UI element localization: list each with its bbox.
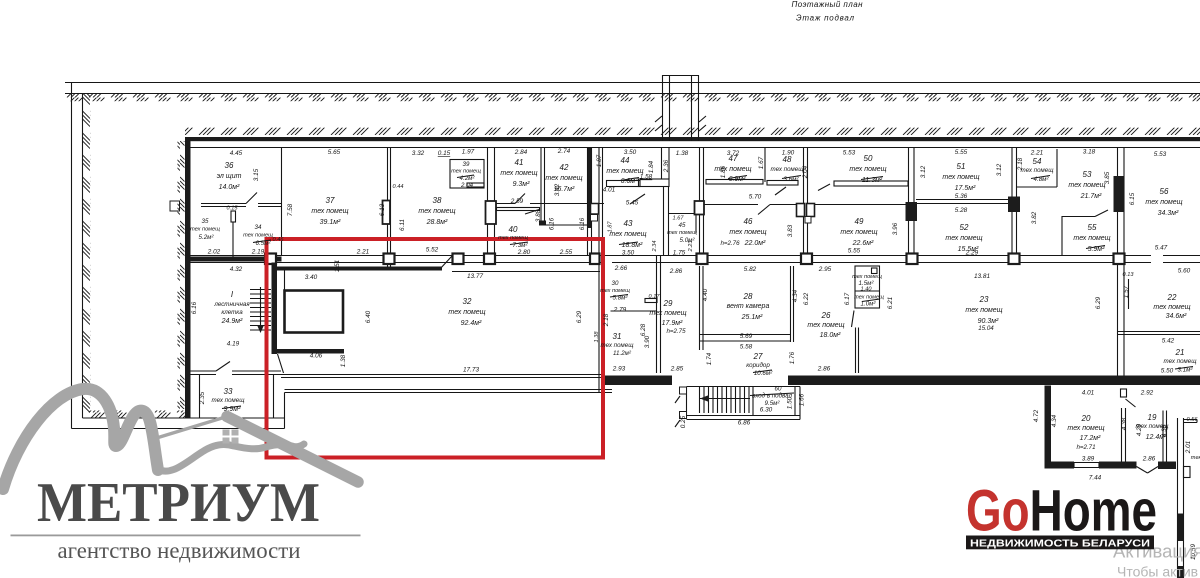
svg-text:0.25: 0.25	[680, 415, 687, 428]
svg-text:тех помещ: тех помещ	[451, 169, 481, 175]
svg-text:7.58: 7.58	[287, 203, 294, 216]
svg-text:h=2.76: h=2.76	[720, 240, 740, 247]
svg-text:6.15: 6.15	[1129, 192, 1136, 205]
svg-text:34.6м²: 34.6м²	[1166, 313, 1187, 320]
svg-text:54: 54	[1033, 157, 1042, 166]
svg-text:14.0м²: 14.0м²	[219, 184, 240, 191]
svg-text:h=2.75: h=2.75	[666, 328, 686, 335]
svg-text:21: 21	[1175, 348, 1185, 357]
svg-text:34: 34	[255, 224, 262, 231]
svg-text:0.15: 0.15	[227, 206, 239, 212]
svg-text:2.55: 2.55	[559, 249, 573, 256]
svg-text:тех помещ: тех помещ	[311, 208, 348, 215]
svg-text:1.74: 1.74	[706, 352, 713, 365]
svg-text:вент камера: вент камера	[727, 303, 770, 310]
svg-text:3.90: 3.90	[644, 335, 651, 348]
svg-text:18.0м²: 18.0м²	[820, 332, 841, 339]
svg-text:4.01: 4.01	[1082, 390, 1095, 397]
svg-text:42: 42	[560, 163, 569, 172]
svg-text:2.02: 2.02	[207, 249, 221, 256]
svg-text:6.30: 6.30	[760, 407, 773, 414]
svg-text:5.60: 5.60	[1178, 268, 1191, 275]
svg-text:49: 49	[855, 217, 864, 226]
svg-text:19: 19	[1148, 413, 1157, 422]
svg-text:3.82: 3.82	[1031, 211, 1038, 224]
svg-text:2.36: 2.36	[663, 159, 670, 173]
svg-text:21.7м²: 21.7м²	[1080, 193, 1102, 200]
svg-text:0.17: 0.17	[649, 294, 661, 300]
svg-text:17.5м²: 17.5м²	[955, 185, 976, 192]
svg-text:тех помещ: тех помещ	[1164, 358, 1198, 365]
svg-text:2.93: 2.93	[612, 366, 626, 373]
svg-text:26: 26	[821, 311, 831, 320]
svg-text:1.67: 1.67	[758, 156, 765, 169]
svg-text:1.66: 1.66	[799, 393, 806, 406]
svg-text:5.50: 5.50	[1161, 368, 1174, 375]
svg-text:агентство недвижимости: агентство недвижимости	[58, 538, 301, 563]
svg-text:1.38: 1.38	[340, 354, 347, 367]
svg-text:6.29: 6.29	[1095, 296, 1102, 309]
svg-text:МЕТРИУМ: МЕТРИУМ	[37, 472, 320, 534]
svg-text:тех помещ: тех помещ	[601, 342, 635, 349]
svg-text:11.2м²: 11.2м²	[613, 350, 632, 357]
svg-text:тех помещ: тех помещ	[190, 227, 220, 233]
svg-text:4.01: 4.01	[603, 187, 616, 194]
svg-text:28: 28	[743, 292, 753, 301]
svg-text:1.40: 1.40	[861, 287, 873, 293]
svg-text:тех помещ: тех помещ	[649, 310, 686, 317]
svg-text:тех помещ: тех помещ	[498, 235, 528, 241]
svg-text:h=2.71: h=2.71	[1076, 444, 1095, 451]
svg-text:1.58: 1.58	[640, 174, 653, 181]
svg-text:тех помещ: тех помещ	[1073, 235, 1110, 242]
svg-text:6.16: 6.16	[579, 217, 586, 230]
svg-text:5.53: 5.53	[843, 150, 856, 157]
svg-text:2.29: 2.29	[965, 250, 979, 257]
svg-text:Этаж подвал: Этаж подвал	[796, 14, 854, 23]
svg-text:тех помещ: тех помещ	[606, 168, 643, 175]
svg-text:5.28: 5.28	[955, 207, 968, 214]
svg-text:тех помещ: тех помещ	[243, 233, 273, 239]
svg-text:53: 53	[1083, 170, 1092, 179]
svg-text:3.89: 3.89	[1082, 456, 1095, 463]
svg-text:40: 40	[509, 225, 518, 234]
svg-text:37: 37	[326, 196, 335, 205]
svg-text:тех помещ: тех помещ	[600, 288, 630, 294]
svg-text:45: 45	[679, 222, 686, 229]
svg-text:5.58: 5.58	[740, 344, 753, 351]
svg-text:0.15: 0.15	[438, 150, 451, 157]
svg-text:тех помещ: тех помещ	[667, 230, 697, 236]
svg-text:3.12: 3.12	[920, 165, 927, 178]
svg-text:6.28: 6.28	[640, 323, 647, 336]
svg-text:27: 27	[753, 352, 763, 361]
svg-text:лестничная: лестничная	[213, 301, 250, 308]
svg-text:0.44: 0.44	[393, 184, 404, 190]
svg-text:22.0м²: 22.0м²	[744, 240, 766, 247]
svg-text:тех помещ: тех помещ	[448, 309, 485, 316]
svg-text:6.86: 6.86	[738, 420, 751, 427]
svg-text:клетка: клетка	[221, 309, 243, 316]
svg-text:4.19: 4.19	[227, 341, 240, 348]
svg-text:23: 23	[979, 295, 989, 304]
svg-text:0.13: 0.13	[1123, 272, 1135, 278]
svg-text:5.47: 5.47	[1155, 245, 1168, 252]
svg-text:2.86: 2.86	[669, 268, 683, 275]
svg-text:36: 36	[225, 161, 234, 170]
svg-text:1.57: 1.57	[1123, 285, 1130, 298]
svg-text:17.9м²: 17.9м²	[662, 320, 683, 327]
svg-text:5.82: 5.82	[744, 266, 757, 273]
svg-text:3.15: 3.15	[253, 168, 260, 181]
svg-text:2.21: 2.21	[1030, 150, 1044, 157]
svg-text:6.16: 6.16	[549, 217, 556, 230]
svg-text:2.34: 2.34	[652, 241, 658, 253]
svg-text:тех помещ: тех помещ	[771, 166, 805, 173]
svg-text:9.3м²: 9.3м²	[513, 181, 531, 188]
svg-text:тек: тек	[1191, 455, 1200, 461]
svg-text:30: 30	[612, 280, 619, 287]
svg-text:29: 29	[663, 299, 673, 308]
svg-text:5.52: 5.52	[426, 247, 439, 254]
svg-text:тех помещ: тех помещ	[714, 166, 751, 173]
svg-text:5.70: 5.70	[749, 194, 762, 201]
svg-text:4.32: 4.32	[230, 266, 243, 273]
svg-text:44: 44	[621, 156, 630, 165]
svg-text:тех помещ: тех помещ	[807, 322, 844, 329]
svg-text:3.32: 3.32	[412, 150, 425, 157]
svg-text:1.97: 1.97	[462, 149, 475, 156]
svg-text:4.72: 4.72	[1033, 409, 1040, 422]
svg-text:4.40: 4.40	[702, 288, 709, 301]
svg-text:47: 47	[729, 154, 738, 163]
svg-text:2.04: 2.04	[460, 182, 474, 189]
svg-text:2.66: 2.66	[614, 265, 628, 272]
svg-text:5.36: 5.36	[955, 193, 968, 200]
svg-text:1.67: 1.67	[673, 216, 685, 222]
svg-text:1.84: 1.84	[648, 160, 655, 173]
svg-text:1.38: 1.38	[594, 331, 600, 343]
svg-text:5.69: 5.69	[740, 333, 753, 340]
svg-text:3.18: 3.18	[1083, 149, 1096, 156]
svg-text:22: 22	[1167, 293, 1177, 302]
svg-text:5.42: 5.42	[1162, 338, 1175, 345]
svg-text:6.13: 6.13	[379, 203, 386, 216]
svg-text:1.38: 1.38	[676, 150, 689, 157]
svg-text:6.22: 6.22	[803, 292, 810, 305]
svg-text:60: 60	[775, 386, 782, 393]
svg-text:3.83: 3.83	[787, 224, 794, 237]
svg-text:5.55: 5.55	[848, 248, 861, 255]
svg-text:56: 56	[1160, 187, 1169, 196]
svg-text:5.65: 5.65	[328, 149, 341, 156]
svg-text:тех помещ: тех помещ	[500, 170, 537, 177]
svg-text:3.96: 3.96	[892, 222, 899, 235]
svg-text:тех помещ: тех помещ	[1067, 425, 1104, 432]
svg-text:2.84: 2.84	[514, 149, 528, 156]
svg-text:4.38: 4.38	[1121, 417, 1128, 430]
svg-text:1.51: 1.51	[334, 259, 341, 272]
svg-text:50: 50	[864, 154, 873, 163]
svg-text:1.87: 1.87	[596, 154, 603, 167]
svg-text:3.88: 3.88	[535, 209, 542, 222]
svg-text:2.92: 2.92	[1140, 390, 1154, 397]
svg-text:5.53: 5.53	[1154, 151, 1167, 158]
svg-text:3.50: 3.50	[622, 250, 635, 257]
svg-text:тех помещ: тех помещ	[1021, 167, 1055, 174]
svg-text:32: 32	[463, 297, 472, 306]
svg-text:6.40: 6.40	[365, 310, 372, 323]
svg-text:33: 33	[224, 387, 233, 396]
svg-text:тех помещ: тех помещ	[212, 397, 246, 404]
svg-text:тех помещ: тех помещ	[945, 235, 982, 242]
svg-text:4.45: 4.45	[230, 150, 243, 157]
svg-text:2.18: 2.18	[603, 313, 610, 327]
svg-text:24.9м²: 24.9м²	[221, 318, 243, 325]
svg-text:6.16: 6.16	[191, 301, 198, 314]
svg-text:тех помещ: тех помещ	[1068, 182, 1105, 189]
svg-text:тех помещ: тех помещ	[418, 208, 455, 215]
svg-text:31: 31	[613, 332, 622, 341]
svg-text:1.76: 1.76	[789, 351, 796, 364]
svg-text:3.50: 3.50	[624, 149, 637, 156]
svg-text:4.34: 4.34	[792, 289, 799, 302]
svg-text:НЕДВИЖИМОСТЬ БЕЛАРУСИ: НЕДВИЖИМОСТЬ БЕЛАРУСИ	[970, 538, 1150, 550]
svg-text:3.40: 3.40	[305, 274, 318, 281]
svg-text:6.17: 6.17	[844, 292, 851, 305]
svg-text:34.3м²: 34.3м²	[1158, 210, 1179, 217]
svg-text:28.8м²: 28.8м²	[426, 219, 448, 226]
svg-text:4.06: 4.06	[310, 353, 323, 360]
svg-text:17.2м²: 17.2м²	[1080, 435, 1101, 442]
svg-text:эл щит: эл щит	[217, 173, 242, 180]
svg-text:51: 51	[957, 162, 966, 171]
svg-text:6.21: 6.21	[887, 296, 894, 309]
svg-text:39: 39	[463, 161, 470, 168]
svg-text:0.56: 0.56	[1187, 417, 1199, 423]
svg-text:92.4м²: 92.4м²	[461, 320, 482, 327]
svg-text:тех помещ: тех помещ	[729, 229, 766, 236]
svg-text:15.04: 15.04	[978, 325, 994, 332]
svg-text:13.81: 13.81	[974, 273, 990, 280]
svg-text:6.11: 6.11	[399, 219, 406, 231]
svg-text:тех помещ: тех помещ	[545, 175, 582, 182]
svg-text:38: 38	[433, 196, 442, 205]
svg-text:тех помещ: тех помещ	[1136, 423, 1170, 430]
svg-text:2.86: 2.86	[1142, 456, 1156, 463]
svg-text:тех помещ: тех помещ	[609, 231, 646, 238]
svg-text:2.35: 2.35	[199, 391, 206, 405]
svg-text:тех помещ: тех помещ	[1153, 304, 1190, 311]
svg-text:48: 48	[783, 155, 792, 164]
svg-text:1.75: 1.75	[673, 250, 686, 257]
svg-text:2.21: 2.21	[356, 249, 370, 256]
svg-text:тех помещ: тех помещ	[965, 307, 1002, 314]
svg-text:41: 41	[515, 158, 524, 167]
svg-text:6.29: 6.29	[576, 310, 583, 323]
svg-text:20: 20	[1081, 414, 1091, 423]
svg-text:5.55: 5.55	[955, 149, 968, 156]
svg-text:52: 52	[960, 223, 969, 232]
svg-text:22.6м²: 22.6м²	[852, 240, 874, 247]
svg-text:Чтобы актив: Чтобы актив	[1117, 564, 1198, 578]
svg-text:2.19: 2.19	[251, 249, 265, 256]
svg-text:GoHome: GoHome	[966, 479, 1157, 544]
svg-text:тех помещ: тех помещ	[840, 229, 877, 236]
svg-text:46: 46	[744, 217, 753, 226]
svg-text:55: 55	[1088, 223, 1097, 232]
svg-text:2.80: 2.80	[517, 249, 531, 256]
svg-text:Поэтажный план: Поэтажный план	[792, 0, 864, 9]
svg-text:2.95: 2.95	[818, 266, 832, 273]
svg-text:43: 43	[624, 219, 633, 228]
svg-text:17.73: 17.73	[463, 367, 479, 374]
svg-text:35: 35	[202, 218, 209, 225]
svg-text:5.0м²: 5.0м²	[680, 237, 696, 244]
svg-text:тех помещ: тех помещ	[849, 166, 886, 173]
svg-text:коридор: коридор	[746, 362, 770, 369]
svg-text:16.7м²: 16.7м²	[554, 186, 575, 193]
svg-text:0.46: 0.46	[273, 237, 285, 243]
svg-text:2.74: 2.74	[557, 148, 571, 155]
svg-text:2.01: 2.01	[1185, 440, 1192, 454]
svg-text:2.79: 2.79	[613, 307, 627, 314]
svg-text:2.59: 2.59	[510, 198, 524, 205]
svg-text:12.4м²: 12.4м²	[1146, 434, 1167, 441]
svg-text:39.1м²: 39.1м²	[320, 219, 341, 226]
svg-text:3.12: 3.12	[996, 163, 1003, 176]
svg-text:2.86: 2.86	[817, 366, 831, 373]
svg-text:5.2м²: 5.2м²	[199, 234, 215, 241]
svg-text:5.45: 5.45	[626, 200, 639, 207]
svg-text:тех помещ: тех помещ	[942, 174, 979, 181]
svg-text:13.77: 13.77	[467, 273, 483, 280]
svg-text:2.85: 2.85	[670, 366, 684, 373]
svg-text:90.3м²: 90.3м²	[978, 318, 999, 325]
svg-text:тех помещ: тех помещ	[1145, 199, 1182, 206]
svg-text:4.34: 4.34	[1051, 414, 1058, 427]
svg-text:25.1м²: 25.1м²	[741, 314, 763, 321]
